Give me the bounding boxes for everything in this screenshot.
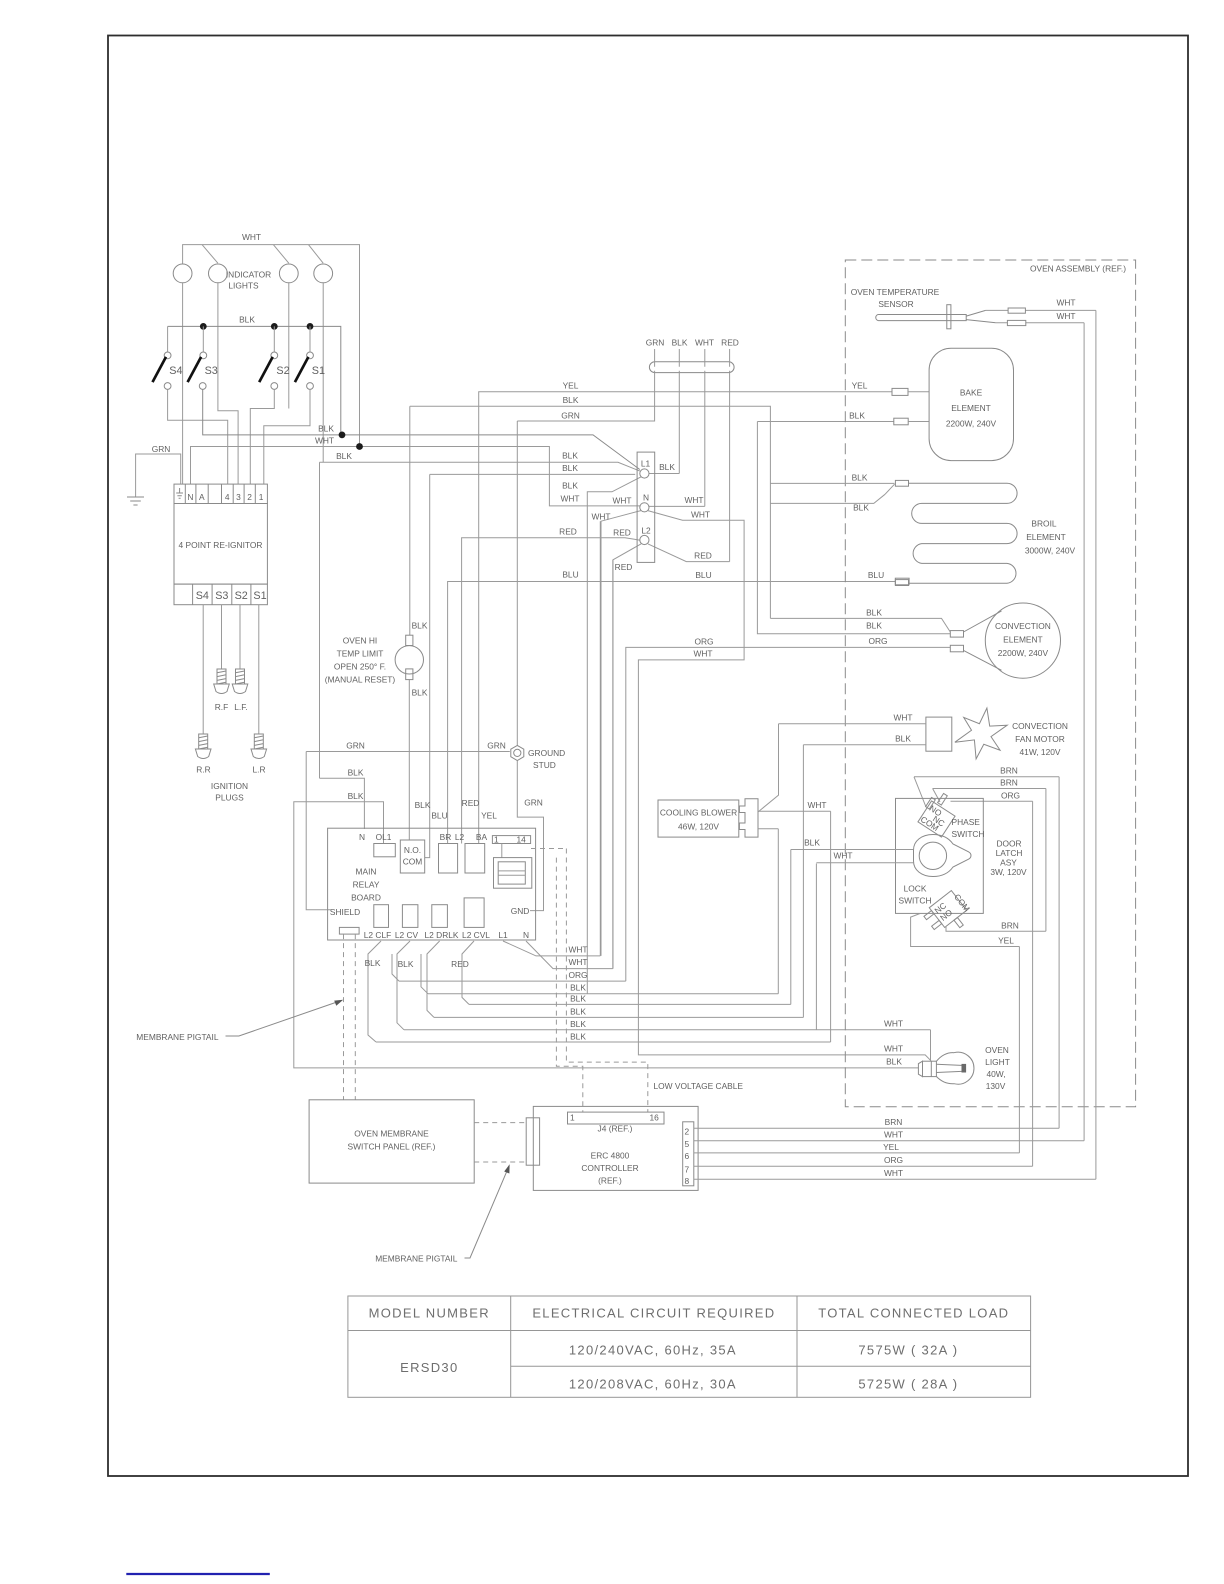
main relay board bbox=[328, 828, 536, 940]
svg-text:L2 CVL: L2 CVL bbox=[462, 930, 490, 940]
wire N diag down-right WHT bbox=[638, 511, 931, 1061]
svg-text:YEL: YEL bbox=[852, 381, 868, 391]
svg-text:BLK: BLK bbox=[412, 688, 428, 698]
fan blade star bbox=[955, 708, 1007, 759]
svg-text:YEL: YEL bbox=[563, 381, 579, 391]
broil serpentine bbox=[909, 483, 1018, 583]
svg-text:WHT: WHT bbox=[884, 1019, 903, 1029]
svg-text:(REF.): (REF.) bbox=[598, 1176, 622, 1186]
re-ignitor bottom cells bbox=[174, 584, 267, 605]
svg-text:BLK: BLK bbox=[348, 791, 364, 801]
svg-text:SENSOR: SENSOR bbox=[878, 299, 913, 309]
svg-text:S3: S3 bbox=[215, 590, 228, 602]
svg-text:S1: S1 bbox=[312, 365, 325, 377]
ribbon connector bbox=[494, 858, 532, 889]
wire S2 lower to terminal 2 bbox=[250, 389, 274, 484]
svg-text:ERC 4800: ERC 4800 bbox=[591, 1151, 630, 1161]
svg-text:MAIN: MAIN bbox=[356, 867, 377, 877]
svg-text:DOOR: DOOR bbox=[996, 839, 1021, 849]
4 point re-ignitor body bbox=[174, 504, 267, 585]
wire L2 diag down-right to capsule RED bbox=[648, 373, 730, 562]
wire N right to capsule WHT bbox=[649, 373, 705, 507]
wire BLK to broil with connector bbox=[770, 482, 894, 484]
pigtail connector bbox=[526, 1118, 539, 1165]
svg-text:PHASE: PHASE bbox=[952, 817, 981, 827]
wire row WHT from N bbox=[526, 560, 613, 969]
wire BLK row to broil/convection bbox=[410, 406, 771, 618]
svg-text:GRN: GRN bbox=[524, 798, 543, 808]
wire to plug RR bbox=[202, 605, 204, 734]
svg-text:BLK: BLK bbox=[570, 1007, 586, 1017]
svg-text:WHT: WHT bbox=[315, 436, 334, 446]
svg-text:GRN: GRN bbox=[561, 411, 580, 421]
indicator light 4 bbox=[314, 264, 333, 283]
wire WHT lower to latch bbox=[816, 862, 913, 864]
svg-text:130V: 130V bbox=[986, 1081, 1006, 1091]
svg-text:BLK: BLK bbox=[570, 1019, 586, 1029]
svg-text:BLK: BLK bbox=[562, 451, 578, 461]
wire BLU row board to broil bbox=[448, 582, 896, 844]
svg-text:INDICATOR: INDICATOR bbox=[226, 270, 271, 280]
svg-text:BRN: BRN bbox=[1001, 921, 1019, 931]
switch S2 bbox=[273, 326, 275, 352]
svg-text:6: 6 bbox=[685, 1151, 690, 1161]
svg-text:RELAY: RELAY bbox=[353, 880, 380, 890]
wire WHT fan row bbox=[758, 724, 926, 812]
ground stud bbox=[306, 751, 510, 753]
svg-text:BA: BA bbox=[476, 832, 488, 842]
svg-text:SWITCH: SWITCH bbox=[952, 829, 985, 839]
svg-text:BLU: BLU bbox=[431, 811, 447, 821]
svg-text:RED: RED bbox=[721, 338, 739, 348]
wire WHT to pin8 bbox=[694, 1178, 1096, 1180]
svg-text:RED: RED bbox=[613, 528, 631, 538]
svg-text:S4: S4 bbox=[169, 365, 182, 377]
hyperlink underline artifact bbox=[126, 1573, 269, 1575]
svg-text:BLK: BLK bbox=[563, 395, 579, 405]
wire lamp drop 2 bbox=[202, 245, 218, 264]
svg-text:4: 4 bbox=[225, 492, 230, 502]
svg-text:1: 1 bbox=[570, 1113, 575, 1123]
ground symbol bbox=[127, 497, 144, 505]
junction dots on BLK bus bbox=[200, 323, 207, 330]
svg-text:7: 7 bbox=[685, 1165, 690, 1175]
svg-text:ORG: ORG bbox=[1001, 791, 1020, 801]
wire BRN from lock switch bbox=[946, 926, 1046, 931]
dashed low voltage cable bbox=[531, 848, 566, 850]
svg-text:BRN: BRN bbox=[885, 1117, 903, 1127]
cable capsule bbox=[649, 362, 734, 373]
svg-text:WHT: WHT bbox=[684, 495, 703, 505]
svg-text:BLK: BLK bbox=[804, 838, 820, 848]
svg-text:OVEN HI: OVEN HI bbox=[343, 636, 377, 646]
wire blower WHT right bbox=[758, 810, 831, 812]
svg-text:BLK: BLK bbox=[562, 481, 578, 491]
svg-text:BLK: BLK bbox=[866, 621, 882, 631]
wire WHT lamp bus bbox=[183, 245, 360, 444]
svg-text:OVEN: OVEN bbox=[985, 1045, 1009, 1055]
svg-text:2: 2 bbox=[247, 492, 252, 502]
svg-text:J4 (REF.): J4 (REF.) bbox=[598, 1124, 633, 1134]
svg-text:7575W ( 32A ): 7575W ( 32A ) bbox=[858, 1343, 958, 1358]
svg-text:BLK: BLK bbox=[852, 473, 868, 483]
wire BLK fan row bbox=[803, 744, 926, 746]
oven hi temp limit bbox=[408, 406, 411, 840]
svg-text:BLK: BLK bbox=[412, 621, 428, 631]
shield terminal bbox=[339, 927, 359, 934]
svg-text:ERSD30: ERSD30 bbox=[400, 1360, 458, 1375]
switch S3 bbox=[202, 326, 204, 352]
svg-text:BROIL: BROIL bbox=[1031, 519, 1056, 529]
wire N diag down-left bbox=[601, 511, 641, 956]
svg-text:ELEMENT: ELEMENT bbox=[1026, 532, 1066, 542]
wire BLK row to board N bbox=[320, 778, 365, 829]
svg-text:N: N bbox=[523, 930, 529, 940]
svg-text:L1: L1 bbox=[498, 930, 508, 940]
svg-text:OPEN 250° F.: OPEN 250° F. bbox=[334, 662, 386, 672]
wire row BLK to latch WHT bbox=[404, 864, 931, 1061]
svg-text:BLK: BLK bbox=[348, 768, 364, 778]
svg-text:WHT: WHT bbox=[591, 512, 610, 522]
svg-text:BOARD: BOARD bbox=[351, 893, 381, 903]
svg-text:RED: RED bbox=[451, 959, 469, 969]
svg-text:BLU: BLU bbox=[695, 570, 711, 580]
svg-text:S2: S2 bbox=[235, 590, 248, 602]
svg-text:2200W, 240V: 2200W, 240V bbox=[946, 419, 997, 429]
wire L2 diag down-left bbox=[613, 544, 641, 969]
svg-text:ORG: ORG bbox=[568, 970, 587, 980]
svg-text:COM: COM bbox=[403, 857, 423, 867]
indicator light 2 bbox=[209, 264, 228, 283]
svg-text:R.R: R.R bbox=[196, 765, 210, 775]
svg-text:N: N bbox=[643, 493, 649, 503]
wire S4 lower to terminal 4 bbox=[168, 389, 228, 484]
svg-text:BLK: BLK bbox=[853, 503, 869, 513]
wire BLK switch bus bbox=[168, 326, 341, 435]
svg-text:SHIELD: SHIELD bbox=[330, 907, 360, 917]
wire row BLK to blower WHT bbox=[376, 811, 831, 1042]
svg-text:5: 5 bbox=[685, 1139, 690, 1149]
cooling blower bbox=[658, 800, 739, 837]
svg-text:WHT: WHT bbox=[560, 494, 579, 504]
svg-text:STUD: STUD bbox=[533, 760, 556, 770]
earth glyph in cell bbox=[176, 488, 183, 498]
svg-text:L2: L2 bbox=[641, 526, 651, 536]
sensor probe bbox=[876, 315, 966, 321]
svg-text:2: 2 bbox=[685, 1127, 690, 1137]
svg-text:S4: S4 bbox=[196, 590, 209, 602]
svg-text:YEL: YEL bbox=[998, 936, 1014, 946]
oven assembly dashed box bbox=[845, 260, 1135, 1107]
svg-text:BLK: BLK bbox=[365, 958, 381, 968]
svg-text:BLU: BLU bbox=[868, 570, 884, 580]
svg-text:MEMBRANE PIGTAIL: MEMBRANE PIGTAIL bbox=[136, 1032, 219, 1042]
svg-text:46W, 120V: 46W, 120V bbox=[678, 822, 719, 832]
svg-text:3W, 120V: 3W, 120V bbox=[990, 867, 1027, 877]
svg-text:WHT: WHT bbox=[568, 957, 587, 967]
junction dot bbox=[339, 432, 346, 439]
svg-text:ELECTRICAL CIRCUIT REQUIRED: ELECTRICAL CIRCUIT REQUIRED bbox=[532, 1306, 775, 1321]
convection element bbox=[985, 603, 1060, 678]
svg-text:L1: L1 bbox=[641, 459, 651, 469]
wire to plug RF bbox=[221, 605, 223, 669]
wire GRN row capsule to ground stud bbox=[517, 373, 654, 746]
capsule top stubs bbox=[655, 349, 730, 362]
wire BLK row from S3 to L1 bbox=[203, 389, 640, 469]
wire BRN row 1 bbox=[914, 777, 1059, 1129]
svg-text:L2 CLF: L2 CLF bbox=[364, 930, 391, 940]
svg-text:COOLING BLOWER: COOLING BLOWER bbox=[660, 808, 737, 818]
svg-text:BLK: BLK bbox=[562, 463, 578, 473]
L1 N L2 terminal block bbox=[637, 452, 655, 562]
bottom relays bbox=[374, 905, 389, 928]
svg-text:L2 DRLK: L2 DRLK bbox=[425, 930, 459, 940]
wire stud to GND bbox=[517, 761, 543, 911]
bake element bbox=[929, 348, 1013, 460]
svg-text:OVEN TEMPERATURE: OVEN TEMPERATURE bbox=[851, 287, 940, 297]
oven membrane switch panel bbox=[309, 1100, 474, 1183]
wire row BLK to blower bbox=[428, 829, 778, 994]
svg-text:BLK: BLK bbox=[570, 1032, 586, 1042]
svg-text:GROUND: GROUND bbox=[528, 748, 565, 758]
svg-text:LOW VOLTAGE CABLE: LOW VOLTAGE CABLE bbox=[654, 1081, 744, 1091]
ignition plug LR bbox=[251, 734, 267, 759]
wire row WHT from L1 bbox=[503, 521, 600, 956]
svg-text:41W, 120V: 41W, 120V bbox=[1020, 747, 1061, 757]
svg-text:BAKE: BAKE bbox=[960, 388, 983, 398]
svg-text:OVEN MEMBRANE: OVEN MEMBRANE bbox=[354, 1129, 429, 1139]
svg-text:N: N bbox=[187, 492, 193, 502]
svg-text:BLK: BLK bbox=[318, 424, 334, 434]
svg-text:RED: RED bbox=[615, 562, 633, 572]
svg-text:RED: RED bbox=[559, 527, 577, 537]
svg-text:S2: S2 bbox=[276, 365, 289, 377]
svg-text:5725W ( 28A ): 5725W ( 28A ) bbox=[858, 1377, 958, 1392]
svg-text:ASY: ASY bbox=[1000, 858, 1017, 868]
wire lamp1 return bbox=[182, 283, 184, 484]
svg-text:L.R: L.R bbox=[252, 765, 265, 775]
wire lamp2 return bbox=[218, 283, 238, 484]
wire BLK OL1 loop to oven light bbox=[294, 802, 919, 1068]
svg-text:RED: RED bbox=[694, 551, 712, 561]
svg-text:BLK: BLK bbox=[398, 959, 414, 969]
svg-text:BLK: BLK bbox=[866, 608, 882, 618]
svg-text:WHT: WHT bbox=[884, 1168, 903, 1178]
svg-text:1: 1 bbox=[494, 835, 499, 845]
svg-text:FAN MOTOR: FAN MOTOR bbox=[1015, 734, 1065, 744]
wire BRN to pin2 bbox=[694, 1127, 1059, 1129]
svg-text:IGNITION: IGNITION bbox=[211, 781, 248, 791]
svg-text:40W,: 40W, bbox=[986, 1069, 1005, 1079]
svg-text:WHT: WHT bbox=[612, 496, 631, 506]
svg-text:LIGHT: LIGHT bbox=[985, 1057, 1010, 1067]
wire lamp4 return bbox=[322, 283, 324, 463]
wire GRN earth bbox=[136, 454, 181, 497]
door latch box bbox=[896, 798, 984, 913]
wire L1 right to capsule BLK bbox=[649, 373, 679, 474]
svg-text:CONVECTION: CONVECTION bbox=[995, 621, 1051, 631]
wire BLK convection 1 bbox=[770, 618, 950, 632]
convection fan motor bbox=[926, 717, 952, 751]
svg-text:BLK: BLK bbox=[415, 800, 431, 810]
svg-text:3: 3 bbox=[236, 492, 241, 502]
wire RED row board to L2 bbox=[462, 538, 640, 844]
svg-text:OVEN ASSEMBLY (REF.): OVEN ASSEMBLY (REF.) bbox=[1030, 264, 1126, 274]
wire blower lower bbox=[758, 828, 778, 830]
svg-text:TOTAL CONNECTED LOAD: TOTAL CONNECTED LOAD bbox=[818, 1306, 1009, 1321]
svg-text:N: N bbox=[359, 832, 365, 842]
svg-text:ELEMENT: ELEMENT bbox=[1003, 635, 1043, 645]
connector 1-14 bbox=[492, 836, 530, 844]
OL1 relay bbox=[374, 844, 396, 857]
svg-text:WHT: WHT bbox=[1056, 298, 1075, 308]
wire ORG to pin7 bbox=[694, 1165, 1033, 1167]
switch S1 bbox=[309, 326, 311, 352]
svg-text:GND: GND bbox=[511, 906, 530, 916]
svg-text:8: 8 bbox=[685, 1176, 690, 1186]
svg-text:ORG: ORG bbox=[694, 637, 713, 647]
svg-text:WHT: WHT bbox=[242, 232, 261, 242]
svg-text:1: 1 bbox=[259, 492, 264, 502]
svg-text:A: A bbox=[199, 492, 205, 502]
dashed membrane cable to ERC bbox=[474, 1123, 526, 1162]
svg-text:WHT: WHT bbox=[691, 510, 710, 520]
svg-text:WHT: WHT bbox=[884, 1044, 903, 1054]
svg-text:2200W, 240V: 2200W, 240V bbox=[998, 648, 1049, 658]
svg-text:120/208VAC, 60Hz, 30A: 120/208VAC, 60Hz, 30A bbox=[569, 1377, 737, 1392]
wire BLK bake to convection 2 bbox=[757, 422, 950, 634]
svg-text:BRN: BRN bbox=[1000, 766, 1018, 776]
svg-text:BLK: BLK bbox=[672, 338, 688, 348]
wire lamp drop 4 bbox=[308, 245, 323, 264]
ignition plug RF bbox=[214, 669, 230, 694]
svg-text:GRN: GRN bbox=[646, 338, 665, 348]
switch S4 bbox=[167, 326, 169, 352]
svg-text:BLK: BLK bbox=[239, 315, 255, 325]
svg-text:RED: RED bbox=[462, 798, 480, 808]
svg-text:LIGHTS: LIGHTS bbox=[228, 281, 259, 291]
svg-text:BLK: BLK bbox=[659, 462, 675, 472]
wire BLK diag from left bbox=[770, 494, 885, 503]
wire BRN row 2 bbox=[933, 789, 1046, 932]
wire ORG row to convection bbox=[626, 647, 951, 981]
svg-text:BLK: BLK bbox=[336, 451, 352, 461]
svg-text:L2: L2 bbox=[455, 832, 465, 842]
indicator light 1 bbox=[173, 264, 192, 283]
svg-text:WHT: WHT bbox=[833, 851, 852, 861]
svg-text:S3: S3 bbox=[205, 365, 218, 377]
svg-text:N.O.: N.O. bbox=[404, 845, 421, 855]
svg-text:WHT: WHT bbox=[807, 800, 826, 810]
svg-text:CONTROLLER: CONTROLLER bbox=[581, 1163, 638, 1173]
wire lamp drop 3 bbox=[273, 245, 289, 264]
wire lamp3 return bbox=[288, 283, 290, 409]
table frame bbox=[348, 1296, 1031, 1397]
svg-text:GRN: GRN bbox=[152, 444, 171, 454]
svg-text:YEL: YEL bbox=[481, 811, 497, 821]
svg-text:BLK: BLK bbox=[886, 1057, 902, 1067]
wire to plug LF bbox=[239, 605, 241, 669]
wire to plug LR bbox=[258, 605, 260, 734]
ignition plug RR bbox=[195, 734, 211, 759]
wire row BLK to latch bbox=[469, 850, 791, 1005]
svg-text:(MANUAL RESET): (MANUAL RESET) bbox=[325, 675, 396, 685]
svg-text:ORG: ORG bbox=[884, 1155, 903, 1165]
svg-text:WHT: WHT bbox=[1056, 311, 1075, 321]
svg-text:GRN: GRN bbox=[487, 741, 506, 751]
svg-text:BLK: BLK bbox=[570, 983, 586, 993]
svg-text:WHT: WHT bbox=[693, 649, 712, 659]
junction dot bbox=[356, 443, 363, 450]
wire WHT row from N terminal bbox=[191, 447, 640, 506]
wire S1 lower to terminal 1 bbox=[264, 389, 310, 484]
terminal block strip bbox=[174, 484, 267, 503]
svg-text:ORG: ORG bbox=[868, 636, 887, 646]
wire BLK row 474 from COM riser to L1 bbox=[425, 474, 636, 857]
svg-text:R.F: R.F bbox=[215, 702, 229, 712]
svg-text:GRN: GRN bbox=[346, 741, 365, 751]
svg-text:PLUGS: PLUGS bbox=[215, 793, 244, 803]
wire YEL row to bake element bbox=[479, 392, 892, 844]
ERC pin connector bbox=[683, 1122, 694, 1186]
svg-text:MEMBRANE PIGTAIL: MEMBRANE PIGTAIL bbox=[375, 1254, 458, 1264]
svg-text:MODEL NUMBER: MODEL NUMBER bbox=[369, 1306, 490, 1321]
svg-text:3000W, 240V: 3000W, 240V bbox=[1025, 546, 1076, 556]
wire YEL from lock switch bbox=[911, 914, 1020, 1153]
svg-text:LOCK: LOCK bbox=[904, 884, 927, 894]
wire L1 diag down-left bbox=[587, 477, 641, 994]
latch cam bbox=[914, 835, 971, 877]
sensor leads WHT bbox=[986, 310, 1096, 1179]
wire shield ground bbox=[306, 752, 331, 910]
wire WHT to latch bbox=[791, 849, 914, 851]
wire YEL to pin6 bbox=[694, 1152, 1020, 1154]
oven light bbox=[918, 1061, 922, 1076]
svg-text:OL1: OL1 bbox=[376, 832, 392, 842]
svg-text:S1: S1 bbox=[253, 590, 266, 602]
wire row BLK to fan bbox=[434, 745, 803, 1018]
ERC 4800 controller bbox=[533, 1106, 698, 1190]
svg-text:BRN: BRN bbox=[1000, 778, 1018, 788]
svg-text:ELEMENT: ELEMENT bbox=[951, 403, 991, 413]
svg-text:SWITCH PANEL (REF.): SWITCH PANEL (REF.) bbox=[348, 1142, 436, 1152]
svg-text:WHT: WHT bbox=[884, 1130, 903, 1140]
svg-text:16: 16 bbox=[650, 1113, 660, 1123]
wire drop to relay board N bbox=[319, 462, 321, 778]
svg-text:4 POINT RE-IGNITOR: 4 POINT RE-IGNITOR bbox=[179, 540, 263, 550]
svg-text:120/240VAC, 60Hz, 35A: 120/240VAC, 60Hz, 35A bbox=[569, 1343, 737, 1358]
svg-text:CONVECTION: CONVECTION bbox=[1012, 721, 1068, 731]
svg-text:WHT: WHT bbox=[695, 338, 714, 348]
wire WHT to pin5 bbox=[694, 1140, 1084, 1142]
blower plug bbox=[739, 799, 758, 837]
svg-text:LATCH: LATCH bbox=[996, 848, 1023, 858]
ignition plug LF bbox=[232, 669, 248, 694]
svg-text:L.F.: L.F. bbox=[234, 702, 248, 712]
svg-text:WHT: WHT bbox=[568, 945, 587, 955]
svg-text:YEL: YEL bbox=[883, 1142, 899, 1152]
svg-text:BR: BR bbox=[440, 832, 452, 842]
svg-text:BLU: BLU bbox=[562, 570, 578, 580]
J4 connector bbox=[568, 1112, 665, 1124]
svg-text:SWITCH: SWITCH bbox=[898, 896, 931, 906]
phase switch bbox=[918, 801, 955, 837]
wire ORG row bbox=[951, 801, 1033, 1166]
svg-text:14: 14 bbox=[517, 835, 527, 845]
svg-text:L2 CV: L2 CV bbox=[395, 930, 419, 940]
wire row ORG bbox=[399, 980, 626, 982]
shield dashed pair bbox=[344, 934, 356, 1100]
